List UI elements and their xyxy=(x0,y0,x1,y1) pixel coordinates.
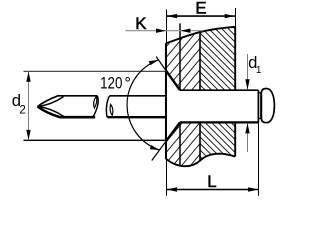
hatch plate 1 upper xyxy=(91,25,264,95)
d2 dimension line xyxy=(28,71,30,140)
plate top break line xyxy=(166,27,235,44)
hatch plate 2 upper xyxy=(118,22,315,95)
plate right edge upper xyxy=(234,27,236,90)
svg-text:°: ° xyxy=(124,75,131,93)
rod break loop xyxy=(110,104,113,115)
L extension right xyxy=(258,122,260,195)
cone extension bottom xyxy=(152,141,166,160)
K leader line xyxy=(125,30,203,32)
plate bottom break line xyxy=(166,154,235,167)
d2 extension top xyxy=(24,70,166,72)
E extension right xyxy=(235,8,237,27)
hatch plate 2 lower xyxy=(142,118,293,165)
K extension line upper xyxy=(179,23,181,90)
rod break end xyxy=(106,96,109,117)
svg-text:120: 120 xyxy=(100,75,122,93)
d1 dimension line lower xyxy=(247,123,249,152)
E dimension line xyxy=(167,15,236,17)
120 degree arc xyxy=(127,60,159,150)
tip break loop xyxy=(94,96,97,108)
cone surface top xyxy=(166,71,180,91)
E-K-L extension line through face xyxy=(166,10,168,196)
cone extension top xyxy=(156,57,166,71)
K extension line lower xyxy=(179,122,181,165)
tip cylinder break end xyxy=(93,96,99,118)
svg-text:E: E xyxy=(195,0,206,18)
tip facet ridge upper xyxy=(38,97,64,107)
mandrel rod top edge xyxy=(110,95,166,97)
tip facet ridge lower xyxy=(38,107,64,117)
mandrel head dome xyxy=(261,89,274,123)
svg-text:K: K xyxy=(135,14,146,33)
svg-text:L: L xyxy=(207,172,216,191)
plate joint lower xyxy=(199,122,201,160)
plate outer face xyxy=(165,43,167,158)
shank bottom edge xyxy=(180,121,258,123)
d2 extension bottom xyxy=(24,139,166,141)
cone surface bottom xyxy=(166,122,180,141)
shank end edge xyxy=(257,90,259,122)
mandrel tip point xyxy=(38,96,98,107)
mandrel head collar xyxy=(258,93,260,119)
hatch plate 1 lower xyxy=(106,118,257,172)
shank top edge xyxy=(180,89,258,91)
L dimension line xyxy=(167,189,259,191)
plate joint upper xyxy=(199,31,201,90)
mandrel rod bottom edge xyxy=(107,116,166,118)
d1 dimension line upper xyxy=(247,54,249,89)
svg-text:2: 2 xyxy=(19,105,25,117)
svg-text:1: 1 xyxy=(256,65,262,76)
plate right edge lower xyxy=(234,122,236,156)
